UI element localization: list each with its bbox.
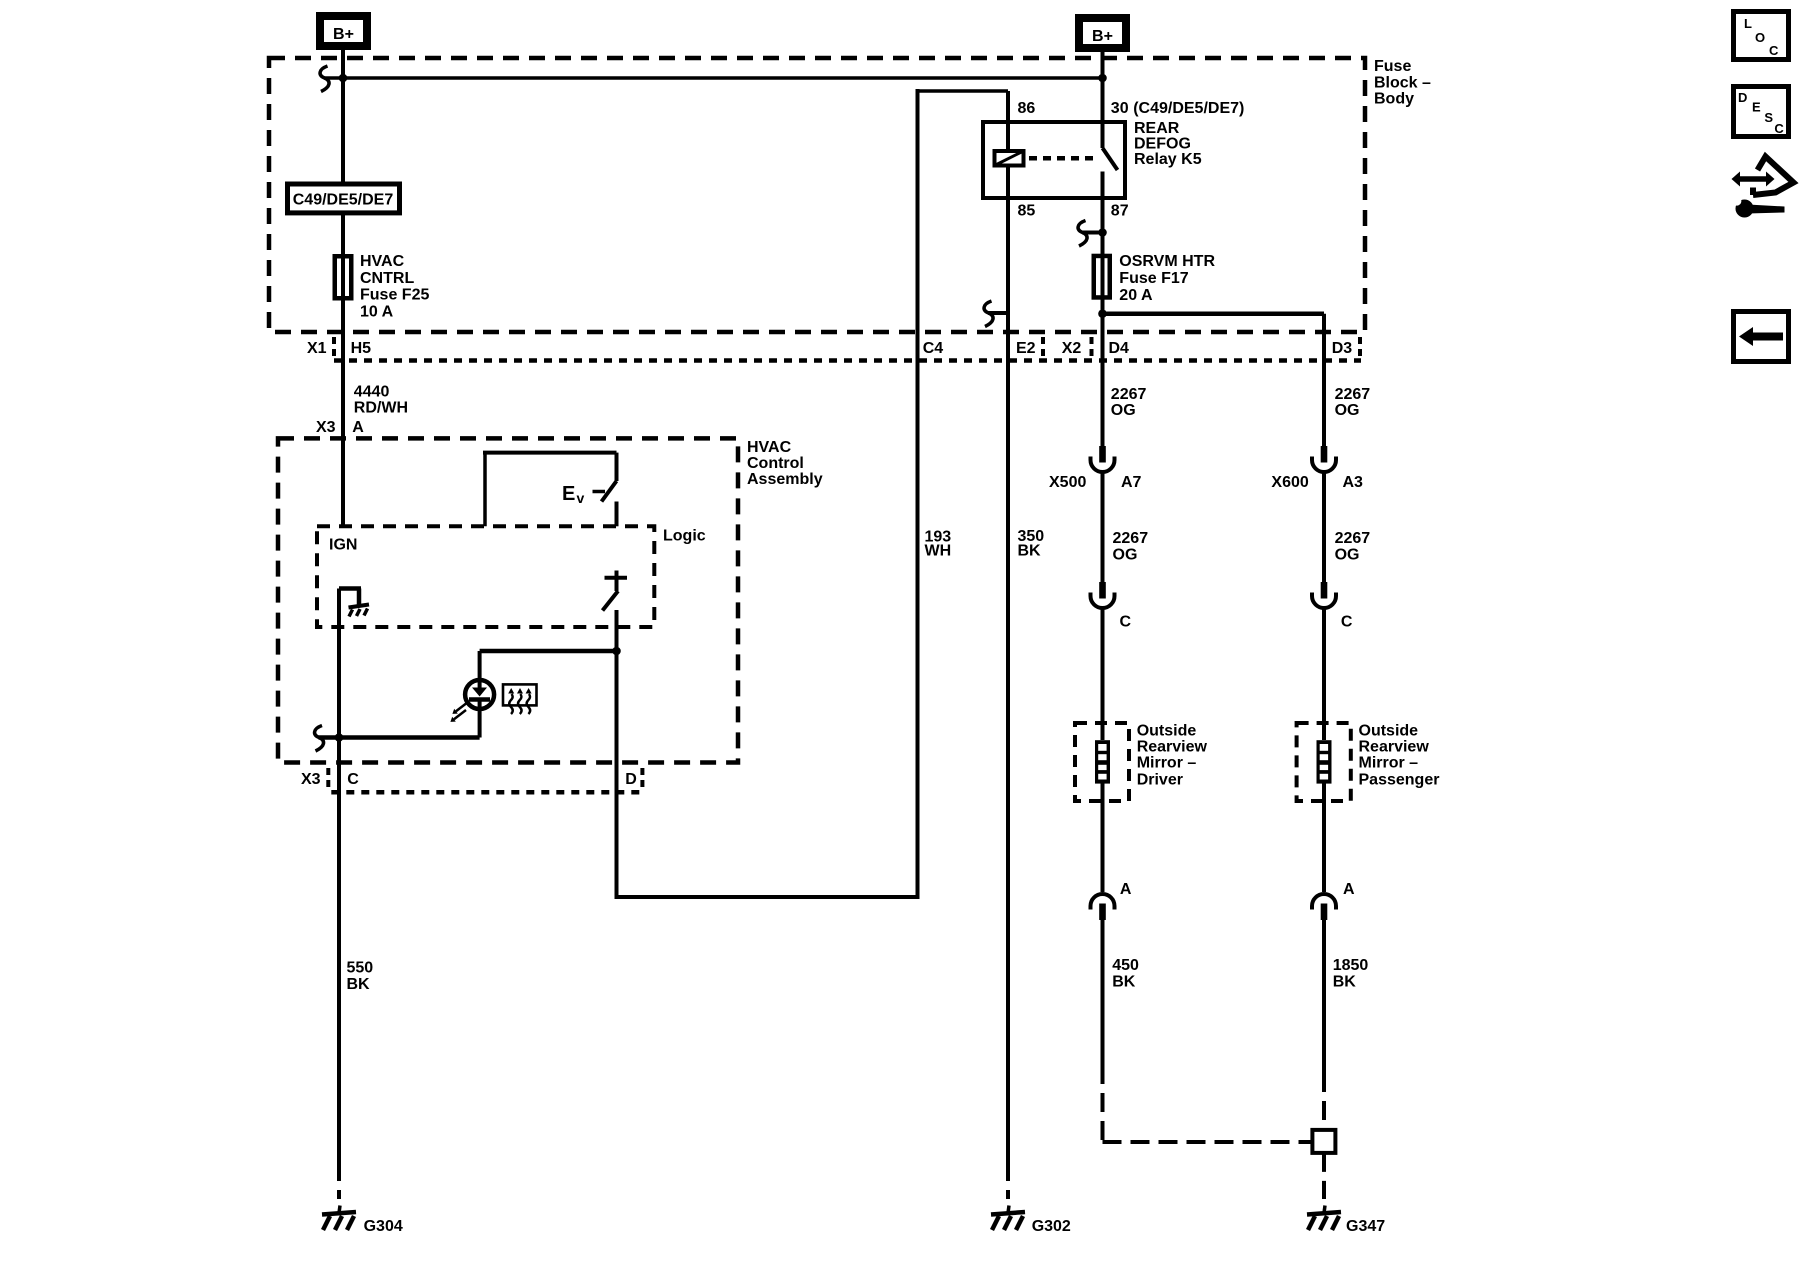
svg-text:E2: E2 bbox=[1016, 340, 1036, 357]
svg-text:BK: BK bbox=[1333, 974, 1357, 991]
svg-text:550: 550 bbox=[347, 959, 374, 976]
svg-text:X2: X2 bbox=[1062, 340, 1082, 357]
svg-text:X3: X3 bbox=[316, 419, 336, 436]
svg-text:2267: 2267 bbox=[1111, 386, 1147, 403]
svg-text:Driver: Driver bbox=[1137, 772, 1183, 789]
svg-text:X1: X1 bbox=[307, 340, 327, 357]
svg-text:2267: 2267 bbox=[1113, 530, 1149, 547]
svg-text:G304: G304 bbox=[364, 1218, 403, 1235]
svg-text:A7: A7 bbox=[1121, 474, 1142, 491]
svg-text:Logic: Logic bbox=[663, 528, 706, 545]
svg-text:D4: D4 bbox=[1109, 340, 1130, 357]
svg-text:87: 87 bbox=[1111, 202, 1129, 219]
svg-text:Rearview: Rearview bbox=[1137, 739, 1208, 756]
svg-text:HVAC: HVAC bbox=[360, 253, 405, 270]
svg-text:D: D bbox=[1738, 90, 1747, 105]
svg-text:(C49/DE5/DE7): (C49/DE5/DE7) bbox=[1133, 100, 1244, 117]
svg-text:OG: OG bbox=[1335, 402, 1360, 419]
svg-text:C49/DE5/DE7: C49/DE5/DE7 bbox=[293, 192, 394, 209]
svg-text:C: C bbox=[347, 771, 359, 788]
svg-text:Block –: Block – bbox=[1374, 75, 1431, 92]
svg-text:Mirror –: Mirror – bbox=[1137, 755, 1197, 772]
svg-text:L: L bbox=[1744, 16, 1752, 31]
svg-text:G347: G347 bbox=[1346, 1218, 1385, 1235]
svg-text:O: O bbox=[1755, 30, 1765, 45]
svg-text:CNTRL: CNTRL bbox=[360, 270, 414, 287]
svg-text:G302: G302 bbox=[1032, 1218, 1071, 1235]
svg-text:Control: Control bbox=[747, 455, 804, 472]
svg-text:OG: OG bbox=[1113, 546, 1138, 563]
svg-text:C: C bbox=[1769, 43, 1779, 58]
svg-text:X600: X600 bbox=[1271, 474, 1308, 491]
svg-text:E: E bbox=[562, 483, 575, 505]
svg-text:BK: BK bbox=[1112, 974, 1136, 991]
svg-text:X3: X3 bbox=[301, 771, 321, 788]
svg-text:Body: Body bbox=[1374, 91, 1414, 108]
svg-text:Assembly: Assembly bbox=[747, 471, 823, 488]
svg-text:30: 30 bbox=[1111, 100, 1129, 117]
svg-text:Rearview: Rearview bbox=[1359, 739, 1430, 756]
svg-text:85: 85 bbox=[1018, 202, 1036, 219]
svg-text:Mirror –: Mirror – bbox=[1359, 755, 1419, 772]
svg-text:Passenger: Passenger bbox=[1359, 772, 1440, 789]
svg-text:S: S bbox=[1764, 110, 1773, 125]
svg-text:E: E bbox=[1752, 100, 1761, 115]
svg-text:B+: B+ bbox=[1092, 28, 1113, 45]
svg-text:WH: WH bbox=[925, 543, 952, 560]
svg-text:DEFOG: DEFOG bbox=[1134, 136, 1191, 153]
svg-text:OG: OG bbox=[1335, 546, 1360, 563]
svg-text:HVAC: HVAC bbox=[747, 439, 792, 456]
svg-text:D3: D3 bbox=[1332, 340, 1353, 357]
svg-text:Fuse F25: Fuse F25 bbox=[360, 287, 429, 304]
svg-text:IGN: IGN bbox=[329, 537, 357, 554]
svg-text:A: A bbox=[1120, 881, 1132, 898]
svg-text:RD/WH: RD/WH bbox=[354, 400, 408, 417]
svg-text:Fuse F17: Fuse F17 bbox=[1119, 270, 1188, 287]
svg-text:OSRVM HTR: OSRVM HTR bbox=[1119, 253, 1215, 270]
svg-text:REAR: REAR bbox=[1134, 120, 1180, 137]
svg-text:450: 450 bbox=[1112, 957, 1139, 974]
svg-text:H5: H5 bbox=[351, 340, 372, 357]
svg-text:A3: A3 bbox=[1343, 474, 1364, 491]
svg-text:X500: X500 bbox=[1049, 474, 1086, 491]
svg-text:A: A bbox=[352, 419, 364, 436]
svg-text:Fuse: Fuse bbox=[1374, 58, 1411, 75]
svg-text:Outside: Outside bbox=[1137, 723, 1197, 740]
svg-text:v: v bbox=[577, 490, 585, 506]
svg-text:4440: 4440 bbox=[354, 384, 390, 401]
svg-text:D: D bbox=[625, 771, 637, 788]
svg-text:BK: BK bbox=[347, 976, 371, 993]
svg-text:1850: 1850 bbox=[1333, 957, 1369, 974]
svg-text:BK: BK bbox=[1018, 543, 1042, 560]
svg-text:C: C bbox=[1120, 613, 1132, 630]
svg-text:10 A: 10 A bbox=[360, 304, 394, 321]
svg-text:B+: B+ bbox=[333, 26, 354, 43]
svg-text:2267: 2267 bbox=[1335, 386, 1371, 403]
svg-text:Outside: Outside bbox=[1359, 723, 1419, 740]
svg-text:2267: 2267 bbox=[1335, 530, 1371, 547]
svg-text:86: 86 bbox=[1018, 100, 1036, 117]
svg-text:C4: C4 bbox=[923, 340, 944, 357]
svg-text:C: C bbox=[1774, 121, 1784, 136]
svg-text:C: C bbox=[1341, 613, 1353, 630]
svg-text:20 A: 20 A bbox=[1119, 287, 1153, 304]
svg-text:Relay K5: Relay K5 bbox=[1134, 151, 1202, 168]
svg-text:OG: OG bbox=[1111, 402, 1136, 419]
svg-text:A: A bbox=[1343, 881, 1355, 898]
